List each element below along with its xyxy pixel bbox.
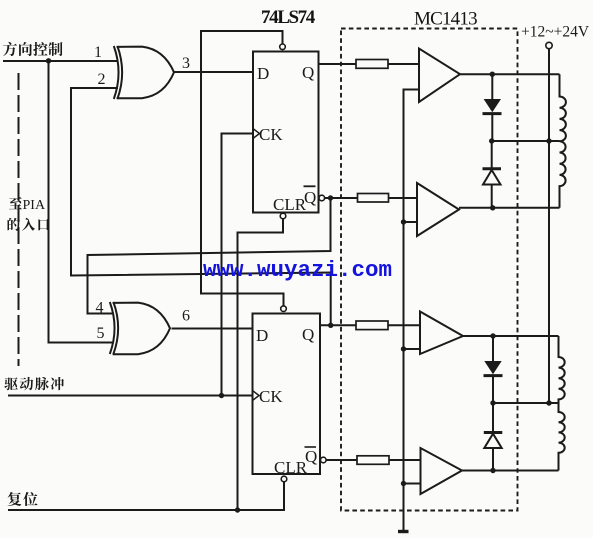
wire: drive pulse to CK of U1B (8, 395, 253, 397)
U1B clear bubble (281, 476, 287, 482)
diode D2 (flyback, A2 output) (491, 141, 493, 168)
svg-text:4: 4 (96, 300, 104, 317)
wire: rail stub to A2 (404, 221, 418, 223)
supply terminal (546, 42, 552, 48)
label 至PIA (9, 197, 22, 209)
wire: XOR1 pin 2 input from FF2 Q feedback (71, 88, 331, 325)
XOR gate G2 (pins 4,5 -> 6) (110, 302, 170, 354)
U1B preset bubble (281, 306, 287, 312)
svg-text:Q: Q (302, 325, 314, 344)
svg-text:MC1413: MC1413 (414, 9, 477, 30)
U1A Qbar bubble (319, 195, 325, 201)
wire: L1 centre tap to supply (492, 140, 560, 142)
svg-text:Q: Q (305, 447, 317, 466)
svg-text:CK: CK (259, 387, 283, 406)
wire: XOR2 pin 5 input (49, 342, 115, 344)
svg-text:74LS74: 74LS74 (261, 7, 316, 28)
node: Q feedback junction (328, 323, 333, 328)
driver buffer A1 (419, 49, 460, 103)
svg-text:+12~+24V: +12~+24V (521, 24, 590, 41)
bracket line: to PIA port (broken vertical) (18, 73, 20, 366)
U1B Qbar overline (305, 446, 317, 448)
diode D1 (flyback, A1 output) (491, 74, 493, 99)
ground symbol (398, 530, 409, 533)
node: CK junction (219, 393, 224, 398)
wire: reset line to CLR of U1B (8, 482, 284, 510)
label 方向控制 (direction control) (3, 42, 63, 56)
driver buffer A4 (421, 448, 463, 494)
wire: R2 to driver A2 (389, 197, 418, 199)
wire: A4 output to winding L2 bottom (462, 470, 559, 472)
svg-text:1: 1 (94, 44, 102, 61)
svg-text:D: D (257, 64, 269, 83)
wire: rail stub to A4 (404, 483, 421, 485)
wire: direction control down to XOR2 pin5 (49, 61, 112, 343)
U1B CK edge-triangle (253, 391, 260, 401)
driver buffer A2 (417, 183, 459, 236)
MC1413 dashed boundary box (341, 29, 518, 511)
wire: A2 output to winding L1 bottom (459, 207, 560, 209)
svg-text:CK: CK (259, 125, 283, 144)
wire: U1A Q to resistor R1 (319, 63, 357, 65)
U1A CK edge-triangle (253, 129, 260, 139)
wire: A3 output to winding L2 top (463, 335, 559, 337)
D flip-flop U1B box (253, 314, 321, 475)
wire: U1B Q to resistor R3 (320, 324, 356, 326)
wire: XOR2 output to FF2 D (172, 328, 253, 330)
node: reset junction (235, 507, 240, 512)
winding L2 (centre-tapped) (559, 336, 565, 471)
wire: supply rail down (548, 49, 550, 403)
node: junction on direction line (46, 58, 51, 63)
wire: preset of U1A tied to preset of U1B (201, 31, 284, 306)
label 驱动脉冲 (drive pulse) (4, 377, 64, 390)
wire: common emitter rail to ground (404, 90, 420, 532)
wire: CK tie up to U1A (222, 134, 254, 396)
diode D4 (flyback, A4 output) (492, 403, 494, 432)
svg-text:CLR: CLR (273, 195, 307, 214)
wire: XOR1 output to FF1 D (174, 71, 253, 73)
wire: XOR1 pin 1 input (103, 60, 118, 62)
svg-text:D: D (256, 326, 268, 345)
wire: U1A Qbar to resistor R2 (325, 197, 358, 199)
wire: L2 centre tap to supply (493, 402, 559, 404)
svg-text:3: 3 (182, 55, 190, 72)
winding L1 (centre-tapped) (560, 74, 566, 208)
U1B pin labels (256, 325, 317, 477)
U1A preset bubble (280, 44, 286, 50)
U1A pin labels (257, 63, 316, 214)
U1A Qbar overline (304, 185, 316, 187)
svg-text:2: 2 (98, 71, 106, 88)
resistor R1 (356, 60, 388, 69)
wire: CLR of U1A down to reset line (238, 219, 284, 510)
resistor R3 (356, 321, 388, 330)
node: Qbar feedback junction (328, 195, 333, 200)
wire: R4 to driver A4 (389, 459, 421, 461)
XOR gate G1 (pins 1,2 -> 3) (114, 46, 174, 99)
svg-text:Q: Q (302, 63, 314, 82)
wire: A1 output to winding L1 top (460, 73, 560, 75)
resistor R4 (357, 456, 389, 465)
D flip-flop U1A box (253, 52, 319, 213)
resistor R2 (358, 194, 389, 203)
driver buffer A3 (420, 312, 463, 355)
U1B Qbar bubble (321, 457, 327, 463)
wire: direction control input line (3, 60, 116, 62)
svg-text:5: 5 (97, 325, 105, 342)
svg-text:CLR: CLR (274, 458, 308, 477)
wire: XOR2 pin 4 input from FF1 Qbar feedback (88, 201, 331, 314)
wire: R1 to driver A1 (388, 63, 419, 65)
diode D3 (flyback, A3 output) (492, 336, 494, 361)
wire: R3 to driver A3 (388, 324, 420, 326)
svg-text:Q: Q (304, 188, 316, 207)
wire: rail stub to A3 (404, 348, 421, 350)
label 复位 (reset) (8, 492, 38, 506)
svg-text:www.wuyazi.com: www.wuyazi.com (203, 257, 392, 283)
U1A clear bubble (280, 213, 286, 219)
svg-text:PIA: PIA (23, 198, 46, 213)
svg-text:6: 6 (182, 308, 190, 325)
label 的入口 (port input) (8, 218, 50, 231)
wire: U1B Qbar to resistor R4 (326, 459, 357, 461)
